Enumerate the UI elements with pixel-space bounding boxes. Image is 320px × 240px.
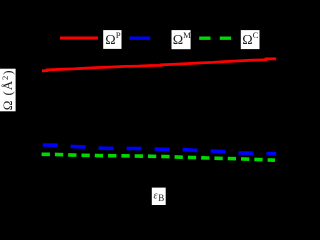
svg-text:ε: ε <box>154 191 158 202</box>
svg-text:B: B <box>158 193 164 203</box>
svg-text:Ω (Å2): Ω (Å2) <box>0 70 15 111</box>
